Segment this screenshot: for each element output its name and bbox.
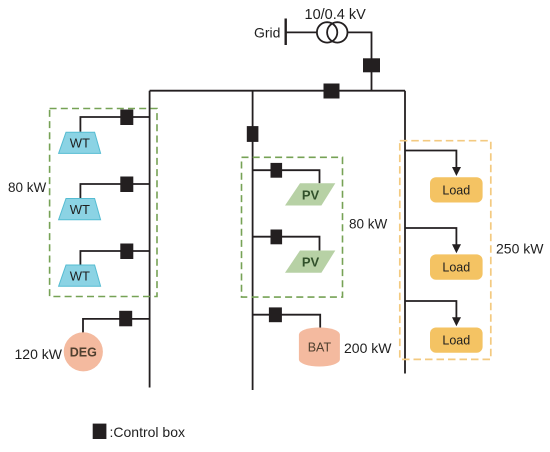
control box PV2 [271,230,283,245]
wind turbine WT2 [59,199,101,220]
wire PV2 to bus [253,237,320,251]
svg-text:Grid: Grid [254,25,280,41]
svg-text:120 kW: 120 kW [15,346,63,362]
solar panel PV2 [285,251,335,273]
svg-text:80 kW: 80 kW [8,180,47,195]
svg-text:BAT: BAT [308,341,332,355]
wind turbine WT1 [59,132,101,153]
control box WT1 [120,110,133,126]
wire Load3 branch [405,301,456,318]
wire PV1 to bus [253,170,320,183]
load Load1 [430,177,483,202]
control box on grid feeder [363,58,380,72]
load Load3 [430,328,483,353]
svg-text:PV: PV [302,255,320,270]
legend control box symbol [93,424,107,439]
battery BAT [299,328,340,367]
svg-text:250 kW: 250 kW [496,241,544,257]
control box BAT [269,307,282,322]
control box WT3 [120,244,133,260]
wire Load2 branch [405,228,456,245]
svg-text::Control box: :Control box [110,424,185,440]
wire DEG to bus [83,319,150,333]
wire transformer to feeder drop [347,32,371,90]
control box on middle feeder [247,126,259,142]
wire right feeder [404,91,406,374]
svg-text:WT: WT [70,268,90,283]
Load group dashed box [400,141,491,360]
wire WT2 to bus [80,184,149,198]
PV group dashed box [242,157,343,297]
control box WT2 [120,177,133,193]
wire WT3 to bus [80,251,149,265]
control box DEG [119,311,132,327]
svg-text:80 kW: 80 kW [349,217,388,232]
load Load2 [430,254,483,279]
control box on main bus [324,84,340,99]
svg-text:Load: Load [442,183,470,197]
svg-text:WT: WT [70,136,90,151]
svg-text:10/0.4 kV: 10/0.4 kV [305,7,367,23]
wire left feeder [149,91,151,388]
node grid busbar [285,19,287,46]
svg-text:Load: Load [442,334,470,348]
svg-text:200 kW: 200 kW [344,340,392,356]
arrowhead Load3 [452,317,461,326]
wire middle feeder [252,91,254,390]
transformer T1 [317,22,348,42]
WT group dashed box [50,109,157,297]
svg-text:Load: Load [442,261,470,275]
arrowhead Load2 [452,244,461,253]
wire grid to transformer [286,31,317,33]
wire BAT to bus [253,315,321,328]
svg-text:DEG: DEG [70,346,97,360]
control box PV1 [271,163,283,178]
wire main bus [150,90,405,92]
wire Load1 branch [405,151,456,168]
generator DEG [64,332,103,371]
arrowhead Load1 [452,167,461,176]
wire WT1 to bus [80,117,149,132]
wind turbine WT3 [59,265,101,286]
svg-text:WT: WT [70,202,90,217]
svg-text:PV: PV [302,187,320,202]
solar panel PV1 [285,183,335,205]
